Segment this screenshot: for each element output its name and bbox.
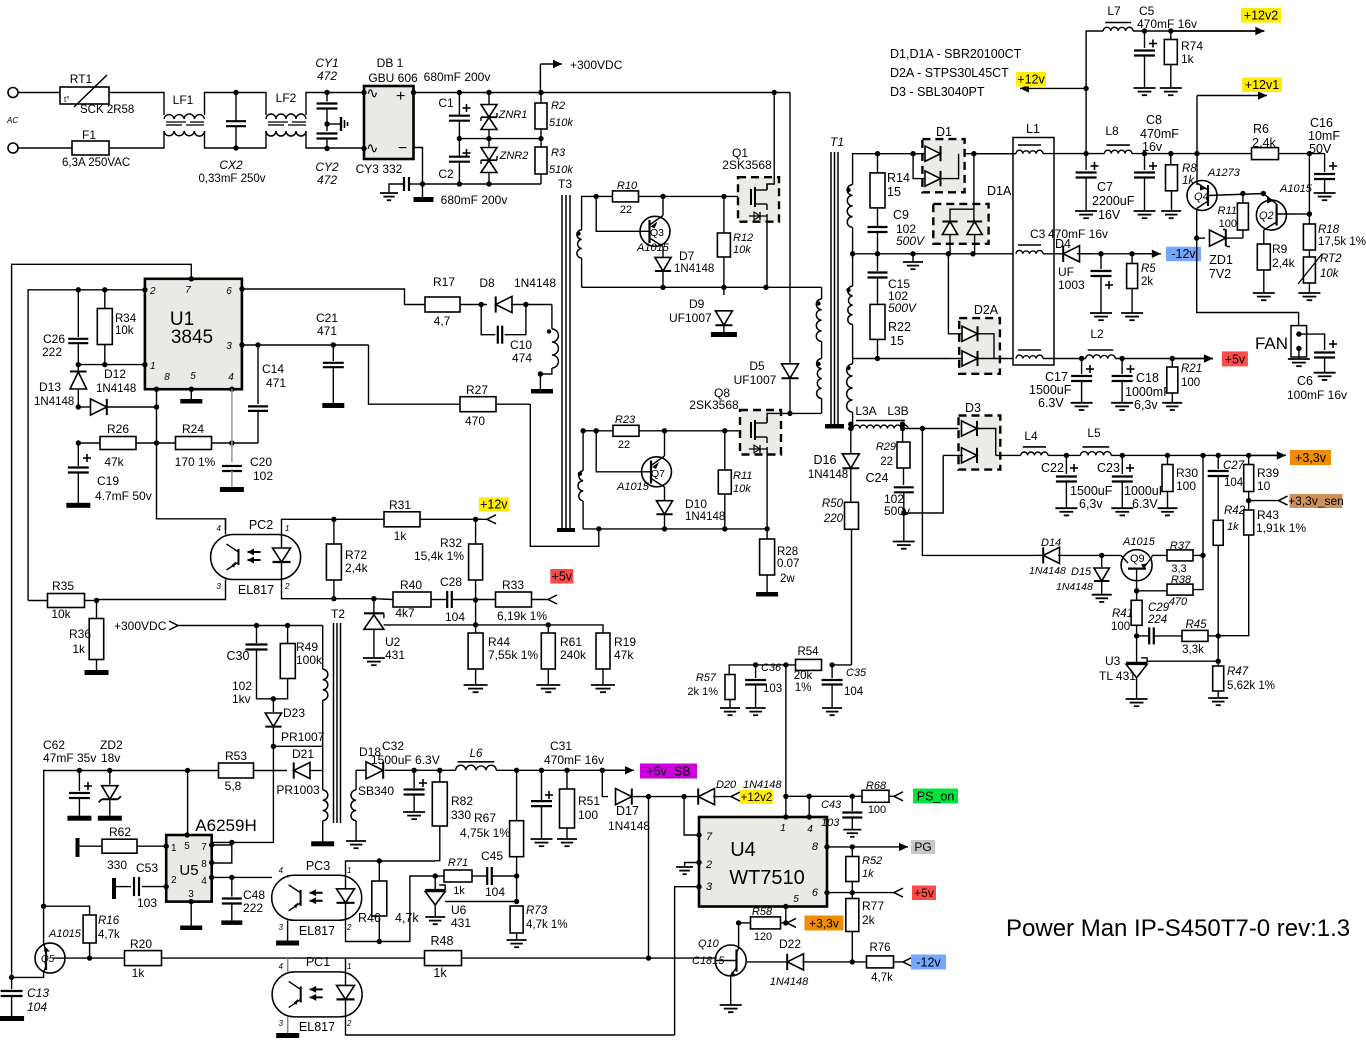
capacitor C32 1500uF 6.3V — [411, 768, 416, 773]
diode D23 PR1007 — [272, 699, 274, 712]
svg-text:+12v: +12v — [480, 497, 508, 511]
svg-text:103: 103 — [137, 896, 157, 910]
capacitor C29 224 — [1137, 635, 1149, 637]
-12v tag — [1166, 247, 1201, 262]
resistor R31 1k — [384, 518, 420, 520]
wire R54 left to R57 — [729, 665, 795, 675]
svg-text:222: 222 — [42, 345, 62, 359]
svg-text:D3 - SBL3040PT: D3 - SBL3040PT — [890, 85, 985, 99]
svg-text:15,4k 1%: 15,4k 1% — [414, 549, 464, 563]
svg-text:+300VDC: +300VDC — [570, 58, 623, 72]
resistor R44 7,55k 1% — [475, 625, 477, 633]
capacitor CX2 — [235, 93, 237, 122]
svg-text:Power Man IP-S450T7-0 rev:1.3: Power Man IP-S450T7-0 rev:1.3 — [1006, 915, 1350, 942]
optocoupler PC1 EL817 — [272, 972, 362, 1017]
svg-text:1k: 1k — [394, 529, 408, 543]
svg-text:5,62k 1%: 5,62k 1% — [1227, 680, 1275, 692]
+5v rail to arrow — [1115, 358, 1213, 360]
svg-text:R76: R76 — [869, 942, 890, 954]
PC1 pin1 wire — [345, 958, 347, 972]
svg-text:2: 2 — [346, 923, 352, 932]
TL431 U6 — [434, 876, 436, 890]
resistor R17 4,7 — [425, 297, 460, 312]
D3 lower input wire — [904, 455, 943, 513]
svg-text:R9: R9 — [1272, 242, 1288, 256]
resistor R33 6,19k 1% — [496, 592, 532, 607]
svg-text:1kv: 1kv — [232, 692, 251, 706]
svg-text:18v: 18v — [101, 751, 120, 765]
wire Q7 base — [596, 431, 644, 472]
T3 winding lower (to Q7 block) — [578, 472, 582, 476]
svg-text:U5: U5 — [179, 862, 198, 879]
capacitor C1 680mF 200v — [458, 93, 460, 116]
U1 pin5 ground — [190, 389, 192, 399]
svg-text:431: 431 — [385, 648, 405, 662]
svg-text:+5v: +5v — [914, 886, 934, 900]
svg-text:510k: 510k — [549, 164, 573, 176]
+3,3v chevron at U4 — [787, 918, 796, 923]
svg-text:R71: R71 — [448, 857, 468, 869]
svg-text:2200uF: 2200uF — [1092, 194, 1135, 208]
svg-text:T3: T3 — [558, 177, 572, 191]
IC U1 3845 — [145, 279, 242, 389]
svg-text:6.3V: 6.3V — [1038, 396, 1064, 410]
svg-text:R68: R68 — [866, 780, 887, 792]
svg-text:T2: T2 — [331, 607, 345, 621]
svg-text:C8: C8 — [1146, 113, 1162, 127]
wire DB1 minus to primary gnd — [414, 148, 423, 198]
T1 secondary winding 3 — [846, 366, 850, 370]
svg-text:7V2: 7V2 — [1209, 267, 1231, 281]
Q1 source wire — [766, 214, 768, 287]
svg-text:102: 102 — [253, 469, 273, 483]
svg-text:C36: C36 — [761, 662, 782, 674]
common-mode choke LF1 — [164, 114, 205, 119]
svg-text:240k: 240k — [560, 648, 587, 662]
svg-text:+12v1: +12v1 — [1245, 78, 1279, 92]
PG arrow — [852, 846, 908, 848]
svg-text:EL817: EL817 — [238, 583, 274, 597]
svg-text:4: 4 — [201, 876, 207, 887]
svg-text:5: 5 — [184, 841, 190, 852]
inductor L5 — [1080, 452, 1111, 456]
svg-text:4,7k: 4,7k — [98, 929, 120, 941]
+3,3v rail to arrow — [1111, 454, 1286, 456]
svg-text:1,91k 1%: 1,91k 1% — [1256, 521, 1306, 535]
svg-text:R11: R11 — [1218, 205, 1237, 217]
svg-text:22: 22 — [880, 456, 893, 468]
svg-text:D12: D12 — [104, 367, 126, 381]
wire U1 pin8 column — [157, 389, 226, 530]
svg-text:102: 102 — [232, 679, 252, 693]
capacitor C8 470mF 16v — [1144, 154, 1146, 170]
wire L3B node down to D14 row — [922, 429, 1035, 556]
resistor R11 10k — [724, 431, 726, 470]
svg-text:1k: 1k — [1227, 521, 1239, 533]
wire Q3 collector to D7 — [662, 247, 664, 258]
svg-text:R27: R27 — [466, 383, 488, 397]
svg-text:A6259H: A6259H — [195, 816, 256, 835]
svg-text:2: 2 — [284, 582, 290, 591]
svg-text:C2: C2 — [438, 167, 454, 181]
resistor R73 4,7k 1% — [510, 906, 523, 933]
PG tag — [911, 840, 935, 854]
T1 primary winding A — [816, 301, 820, 305]
svg-text:+12v: +12v — [1017, 73, 1045, 87]
capacitor C45 104 — [486, 867, 488, 885]
svg-text:104: 104 — [1224, 477, 1244, 489]
svg-text:0,33mF 250v: 0,33mF 250v — [198, 173, 265, 185]
svg-text:R62: R62 — [109, 825, 131, 839]
svg-text:D16: D16 — [814, 453, 837, 467]
resistor R16 4,7k — [44, 906, 90, 915]
svg-text:1N4148: 1N4148 — [808, 469, 848, 481]
svg-text:6,3v: 6,3v — [1079, 497, 1103, 511]
svg-text:D2A: D2A — [974, 303, 999, 317]
diode D8 1N4148 — [496, 296, 512, 312]
svg-text:1: 1 — [780, 823, 786, 834]
T3 winding upper (to Q3 block) — [576, 231, 580, 235]
resistor R22 15 — [870, 304, 885, 339]
svg-text:47k: 47k — [104, 455, 124, 469]
capacitor C7 2200uF 16V — [1085, 154, 1087, 170]
resistor R9 2,4k — [1257, 244, 1270, 270]
diode D22 1N4148 — [747, 961, 786, 963]
svg-text:R34: R34 — [115, 313, 137, 325]
svg-text:1000mF: 1000mF — [1125, 385, 1171, 399]
Q4 collector wire — [1196, 209, 1198, 239]
svg-text:4: 4 — [217, 524, 222, 533]
svg-text:D5: D5 — [749, 359, 765, 373]
svg-text:A1015: A1015 — [616, 481, 650, 493]
svg-text:-12v: -12v — [1171, 247, 1196, 261]
wire R27 drive to lower rail — [530, 404, 599, 546]
svg-text:R11: R11 — [733, 470, 752, 482]
svg-text:100: 100 — [1181, 377, 1200, 389]
resistor R68 100 — [862, 790, 889, 802]
svg-text:EL817: EL817 — [299, 1020, 335, 1034]
svg-text:C19: C19 — [97, 474, 119, 488]
svg-text:16V: 16V — [1098, 208, 1121, 222]
inductor L2 — [1086, 355, 1116, 359]
wire Q3 emitter to gate line — [662, 196, 664, 215]
transistor Q3 A1015 — [640, 216, 670, 246]
svg-text:R10: R10 — [617, 180, 638, 192]
resistor R41 100 — [1136, 581, 1138, 601]
wire +12v node up to L7 — [1086, 31, 1103, 154]
svg-text:1N4148: 1N4148 — [1029, 565, 1066, 577]
PC3 pin3 ground — [287, 920, 289, 940]
capacitor C35 104 — [831, 665, 833, 678]
svg-text:100k: 100k — [296, 653, 323, 667]
svg-text:4: 4 — [228, 372, 234, 383]
resistor R6 2,4k — [1252, 148, 1279, 160]
T1 secondary winding 1 — [846, 188, 850, 192]
svg-text:4,7k 1%: 4,7k 1% — [526, 919, 568, 931]
svg-text:R72: R72 — [345, 548, 367, 562]
PC2 pin2 wire — [282, 580, 374, 599]
common-mode choke LF2 — [266, 114, 306, 119]
ground bar T3 aux — [531, 389, 553, 394]
svg-text:2k: 2k — [1141, 276, 1153, 288]
+5v input chevron — [548, 595, 557, 600]
wire LF2 to CY2 bottom — [306, 131, 364, 148]
resistor R26 47k — [76, 440, 81, 445]
svg-text:R30: R30 — [1176, 466, 1198, 480]
capacitor C3 470mF 16v — [1100, 254, 1102, 269]
thermistor RT1 — [60, 87, 109, 104]
svg-text:PS_on: PS_on — [917, 790, 955, 804]
svg-text:10k: 10k — [733, 244, 751, 256]
svg-text:U4: U4 — [730, 839, 756, 861]
svg-text:∿: ∿ — [366, 140, 379, 157]
capacitor C36 103 — [755, 665, 757, 678]
svg-text:A1015: A1015 — [48, 928, 82, 940]
D1A anode wires — [949, 235, 951, 254]
T1 primary winding B — [816, 362, 820, 366]
svg-text:R74: R74 — [1181, 39, 1203, 53]
svg-text:R48: R48 — [431, 934, 454, 948]
U3 ref wire to R47 — [1147, 660, 1218, 662]
svg-text:C17: C17 — [1045, 370, 1068, 384]
svg-text:470mF: 470mF — [1140, 127, 1179, 141]
Q10 emitter to ground — [730, 976, 732, 1006]
wire D17 node down to Q10 area — [648, 797, 650, 959]
PE ground of CY1 CY2 — [327, 123, 341, 125]
svg-text:3845: 3845 — [171, 327, 213, 348]
svg-text:SCK 2R58: SCK 2R58 — [80, 104, 134, 116]
resistor R36 1k — [96, 601, 98, 619]
wire U1 pin1 row — [78, 364, 145, 366]
svg-text:104: 104 — [485, 885, 505, 899]
+3,3v rail from D3 — [996, 454, 1021, 456]
resistor R10 22 — [596, 195, 612, 197]
resistor R67 4,75k 1% — [516, 770, 518, 820]
primary ground bar below DB1 — [414, 197, 434, 202]
capacitor C62 47mF 35v — [78, 771, 80, 792]
U5 pin5 wire from rail — [187, 771, 189, 836]
svg-text:100: 100 — [1219, 218, 1237, 230]
svg-text:500v: 500v — [884, 504, 910, 518]
svg-text:471: 471 — [266, 376, 286, 390]
svg-text:D1A: D1A — [987, 184, 1012, 198]
wire R45 node to R47 — [1217, 636, 1219, 666]
resistor R8 1k — [1170, 154, 1172, 165]
resistor R2 510k — [540, 93, 542, 104]
svg-text:20k: 20k — [794, 670, 813, 682]
resistor R82 330 — [439, 770, 441, 782]
T2 primary ground bar — [311, 841, 334, 846]
svg-text:3,3k: 3,3k — [1182, 644, 1204, 656]
svg-text:1N4148: 1N4148 — [34, 396, 74, 408]
-12v chevron at U4 — [903, 957, 912, 962]
svg-text:1k: 1k — [1181, 52, 1195, 66]
PS_on chevron — [894, 792, 903, 797]
capacitor C17 1500uF 6.3V — [1081, 359, 1083, 375]
+5v_SB tag — [640, 764, 697, 779]
svg-text:C35: C35 — [846, 667, 867, 679]
svg-text:8: 8 — [201, 859, 207, 870]
earth on center rail — [912, 254, 914, 262]
capacitor C20 102 — [222, 465, 242, 467]
svg-text:0.07: 0.07 — [777, 558, 799, 570]
svg-text:C32: C32 — [382, 739, 404, 753]
svg-text:7: 7 — [185, 285, 191, 296]
resistor R58 120 — [739, 922, 751, 924]
svg-text:L7: L7 — [1107, 4, 1121, 18]
svg-text:C62: C62 — [43, 738, 65, 752]
svg-text:D10: D10 — [685, 497, 707, 511]
resistor R32 15,4k 1% — [475, 519, 477, 544]
L1 winding +5v — [1016, 355, 1043, 358]
svg-text:6.3V: 6.3V — [1132, 497, 1158, 511]
Q5 emitter wire — [12, 973, 44, 978]
svg-text:R14: R14 — [887, 171, 910, 185]
svg-text:R32: R32 — [440, 536, 462, 550]
svg-text:C13: C13 — [27, 986, 49, 1000]
svg-text:R54: R54 — [797, 646, 819, 658]
svg-text:R44: R44 — [488, 635, 510, 649]
resistor R27 470 — [460, 397, 496, 412]
svg-text:ZNR1: ZNR1 — [498, 109, 528, 121]
svg-text:FAN: FAN — [1255, 334, 1288, 353]
svg-text:D9: D9 — [689, 297, 705, 311]
svg-text:16v: 16v — [1142, 140, 1163, 154]
capacitor CY2 — [324, 121, 329, 126]
+3,3v_sen tag — [1290, 494, 1343, 508]
svg-text:R16: R16 — [98, 915, 120, 927]
transistor Q5 A1015 — [35, 943, 65, 973]
svg-text:R45: R45 — [1185, 619, 1207, 631]
svg-text:472: 472 — [317, 69, 337, 83]
U4 pin6 +5v row — [827, 892, 852, 894]
svg-text:R77: R77 — [862, 899, 884, 913]
svg-text:C21: C21 — [316, 311, 338, 325]
wire Q3 base — [596, 196, 640, 231]
svg-text:Q4: Q4 — [1194, 191, 1209, 203]
svg-text:R49: R49 — [296, 640, 318, 654]
wire LF2 to CY1 top — [306, 93, 364, 116]
PC2 pin1 wire — [282, 519, 385, 534]
svg-text:1N4148: 1N4148 — [743, 779, 782, 791]
svg-text:CY2: CY2 — [315, 160, 339, 174]
svg-text:D15: D15 — [1071, 566, 1092, 578]
svg-text:LF2: LF2 — [276, 91, 297, 105]
svg-text:T1: T1 — [830, 135, 844, 149]
svg-text:C24: C24 — [866, 471, 889, 485]
svg-text:D1: D1 — [936, 125, 952, 139]
svg-text:5: 5 — [793, 894, 799, 905]
T2 secondary winding — [351, 790, 356, 821]
svg-text:10k: 10k — [51, 607, 71, 621]
svg-text:15: 15 — [890, 334, 904, 348]
svg-text:3: 3 — [279, 1019, 284, 1028]
svg-text:GBU 606: GBU 606 — [368, 71, 418, 85]
svg-text:C18: C18 — [1136, 371, 1159, 385]
svg-text:R73: R73 — [526, 905, 548, 917]
svg-text:+: + — [396, 88, 405, 105]
svg-text:R61: R61 — [560, 635, 582, 649]
svg-text:D7: D7 — [679, 249, 695, 263]
-12v row to arrow — [1077, 253, 1161, 255]
inductor L6 — [456, 765, 497, 770]
diode D7 1N4148 — [655, 257, 671, 271]
svg-text:4: 4 — [279, 962, 284, 971]
resistor R18 17,5k 1% — [1308, 214, 1310, 224]
wire R10 to Q1 gate — [638, 195, 751, 197]
resistor R40 4k7 — [374, 598, 393, 601]
terminal bar C53 — [112, 878, 116, 899]
svg-text:Q7: Q7 — [651, 468, 665, 480]
resistor R11 100 (supervisor) — [1242, 194, 1244, 203]
mid rail C1-C2 ZNR R2-R3 — [459, 138, 541, 140]
svg-text:A1273: A1273 — [1207, 167, 1241, 179]
fuse F1 — [72, 141, 109, 155]
svg-text:PG: PG — [914, 840, 931, 854]
svg-text:C29: C29 — [1148, 602, 1170, 614]
svg-text:1N4148: 1N4148 — [608, 819, 650, 833]
svg-text:+3,3v_sen: +3,3v_sen — [1288, 494, 1344, 508]
svg-text:CX2: CX2 — [219, 158, 243, 172]
T1 secondary winding 2 — [846, 288, 850, 292]
svg-text:100: 100 — [1111, 621, 1130, 633]
+5v rail from T1 through D2A — [853, 358, 948, 360]
svg-text:PC1: PC1 — [306, 955, 330, 969]
svg-text:C53: C53 — [136, 861, 158, 875]
wire L7 to +12v2 arrow — [1133, 30, 1264, 32]
PC1 pin3 ground — [287, 1017, 289, 1033]
diode D10 1N4148 — [656, 501, 672, 515]
terminal bar R62 — [76, 838, 80, 857]
svg-text:1k: 1k — [1182, 175, 1195, 187]
IC U4 WT7510 — [699, 817, 827, 907]
lower block source rail — [583, 528, 767, 530]
inductor L4 — [1021, 452, 1048, 455]
svg-text:L1: L1 — [1026, 122, 1040, 136]
svg-text:C14: C14 — [262, 362, 284, 376]
inductor L7 — [1103, 27, 1133, 31]
svg-text:2: 2 — [149, 286, 156, 297]
resistor R48 1k — [425, 951, 462, 966]
resistor R38 470 — [1134, 588, 1139, 593]
U5 pin7 pin8 wires — [212, 844, 232, 846]
svg-text:R28: R28 — [777, 546, 798, 558]
svg-text:10k: 10k — [1320, 268, 1340, 280]
+5v_SB arrow — [602, 769, 634, 771]
svg-text:C48: C48 — [243, 888, 265, 902]
svg-text:A1015: A1015 — [1279, 183, 1313, 195]
resistor R14 15 — [868, 153, 1013, 155]
svg-text:1k: 1k — [862, 868, 874, 880]
PC2 pin4 wire — [225, 519, 227, 535]
svg-text:D17: D17 — [616, 804, 639, 818]
svg-text:1N4148: 1N4148 — [770, 976, 809, 988]
transistor Q10 C1815 — [715, 945, 746, 976]
svg-text:170 1%: 170 1% — [175, 455, 216, 469]
svg-text:Q2: Q2 — [1259, 210, 1274, 222]
svg-text:3: 3 — [217, 582, 222, 591]
U4 pin2 ground — [685, 863, 699, 868]
svg-text:D8: D8 — [479, 276, 495, 290]
svg-text:C28: C28 — [440, 575, 462, 589]
resistor R45 3,3k — [1182, 630, 1208, 641]
resistor R37 3,3 — [1152, 554, 1167, 556]
+5v tag — [1222, 351, 1248, 366]
svg-text:D23: D23 — [283, 706, 305, 720]
resistor R61 240k — [547, 625, 549, 633]
svg-text:47mF 35v: 47mF 35v — [43, 751, 96, 765]
svg-text:1N4148: 1N4148 — [514, 276, 556, 290]
